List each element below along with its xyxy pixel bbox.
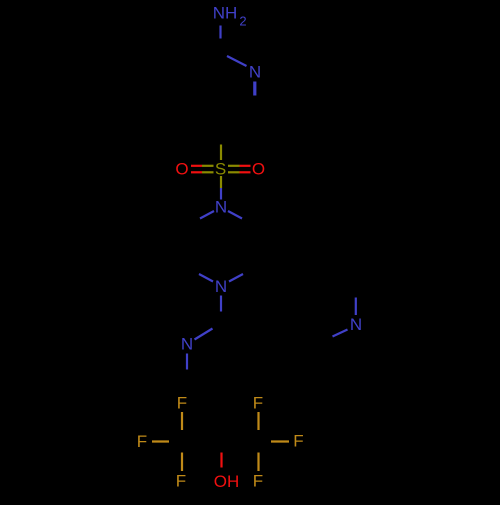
bond C2 to N1 of aminopyridine — [227, 56, 247, 66]
bond F bottom-left to CF3 carbon — [181, 453, 183, 472]
piperazine N1-C bond down-right — [228, 211, 242, 219]
bond ring C5 to sulfonyl S — [220, 145, 222, 161]
svg-text:N: N — [215, 198, 227, 217]
bond F left to CF3 carbon — [152, 440, 169, 442]
double bond S=O right — [228, 166, 251, 173]
double bond N1=C6 of aminopyridine — [253, 82, 256, 96]
svg-text:O: O — [175, 160, 188, 179]
svg-text:N: N — [249, 63, 261, 82]
bond S to piperazine N1 (blue half) — [220, 188, 222, 200]
bond F top-left to CF3 carbon — [181, 412, 183, 430]
svg-text:2: 2 — [239, 14, 246, 29]
svg-text:F: F — [253, 394, 263, 413]
svg-text:F: F — [253, 472, 263, 491]
svg-text:F: F — [293, 432, 303, 451]
svg-text:O: O — [252, 160, 265, 179]
svg-text:N: N — [215, 277, 227, 296]
svg-text:S: S — [215, 160, 226, 179]
svg-text:F: F — [176, 472, 186, 491]
bond N1 to C6 of right pyridine — [355, 298, 357, 316]
amine NH2 label — [213, 4, 247, 29]
bond N1 to C6 of central pyridine — [186, 354, 188, 370]
bond F right to CF3 carbon — [271, 440, 289, 442]
double bond S=O left — [191, 166, 214, 173]
svg-text:N: N — [350, 315, 362, 334]
bond carbinol C to OH — [220, 453, 222, 468]
bond S to piperazine N1 (olive half) — [220, 176, 222, 188]
bond C2 to N1 of central pyridine — [195, 329, 213, 340]
bond piperazine N4 to pyridine C2 (central ring) — [220, 296, 222, 312]
bond F bottom-right to CF3 carbon — [257, 453, 259, 472]
piperazine N4-C bond up-left — [199, 274, 213, 282]
svg-text:OH: OH — [214, 472, 240, 491]
piperazine N4-C bond up-right — [229, 274, 243, 282]
svg-text:F: F — [137, 432, 147, 451]
bond NH2 to C2 of aminopyridine — [219, 26, 221, 39]
piperazine N1-C bond down-left — [200, 211, 214, 219]
bond F top-right to CF3 carbon — [257, 412, 259, 430]
bond N1 to C2 of right pyridine — [333, 330, 348, 337]
svg-text:N: N — [181, 335, 193, 354]
svg-text:NH: NH — [213, 4, 238, 23]
svg-text:F: F — [177, 394, 187, 413]
